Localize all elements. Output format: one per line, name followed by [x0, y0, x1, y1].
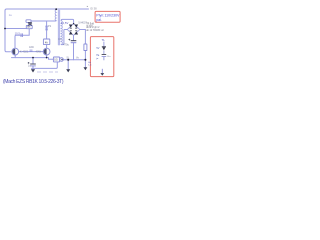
svg-text:470u: 470u [63, 43, 69, 47]
svg-text:10u: 10u [107, 56, 111, 58]
svg-text:12,5V: 12,5V [61, 21, 68, 25]
svg-text:ab 12 TR495 xxl: ab 12 TR495 xxl [86, 29, 104, 32]
svg-text:TH: TH [27, 27, 30, 29]
svg-text:pal.: pal. [96, 18, 102, 22]
svg-text:P1: P1 [48, 24, 52, 28]
svg-text:K 4021: K 4021 [20, 50, 29, 54]
svg-text:C1: C1 [58, 37, 62, 41]
svg-text:1kW: 1kW [29, 46, 35, 49]
svg-text:SL: SL [66, 57, 70, 60]
svg-text:4A: 4A [45, 41, 48, 44]
svg-text:TL: TL [102, 38, 106, 42]
svg-text:10,5: 10,5 [15, 31, 21, 35]
svg-text:1a: 1a [9, 13, 13, 17]
svg-text:t=: t= [96, 58, 99, 61]
svg-text:tr: tr [87, 5, 89, 8]
svg-text:Vo: Vo [76, 56, 79, 59]
svg-text:1N4007: 1N4007 [78, 21, 87, 24]
svg-text:Ha: Ha [96, 54, 100, 57]
svg-text:EI 38: EI 38 [91, 6, 98, 10]
svg-text:Plyn:110/230V: Plyn:110/230V [96, 13, 120, 17]
svg-text:(Mach EZS RB1K 10.5-226-3T): (Mach EZS RB1K 10.5-226-3T) [3, 79, 64, 85]
svg-text:40W: 40W [36, 50, 42, 54]
svg-text:5V: 5V [96, 47, 99, 50]
svg-text:1-4: 1-4 [88, 65, 92, 67]
